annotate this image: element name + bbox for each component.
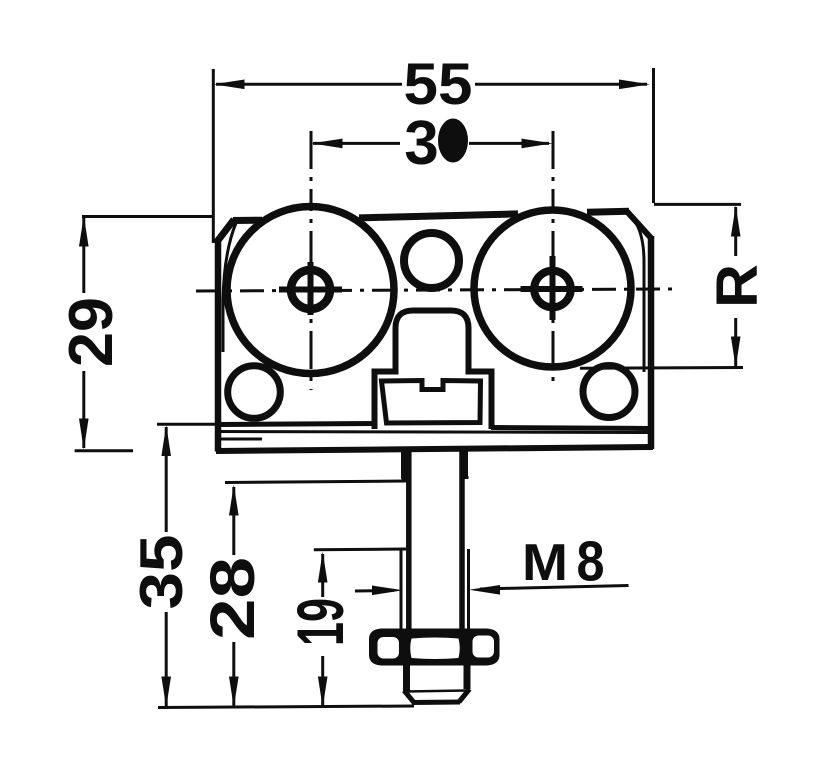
bolt collar left	[401, 447, 407, 479]
svg-text:55: 55	[404, 52, 473, 117]
bolt shank right	[459, 447, 465, 629]
dim M8 arrow left tail	[355, 589, 394, 593]
dim 30 blob zero	[438, 119, 468, 163]
thread line left	[400, 549, 403, 629]
dim 19 arrow down	[318, 677, 328, 708]
bolt shank left	[406, 447, 412, 629]
dim 35 line lower	[165, 612, 168, 706]
dim M8 arrow right head	[469, 585, 500, 595]
dim M8 leader line	[480, 586, 629, 590]
dim 29 line upper	[82, 218, 85, 293]
roller left outer circle	[227, 207, 394, 374]
body left edge	[215, 241, 222, 452]
nut left facet	[378, 637, 400, 659]
dim R line upper	[734, 207, 737, 256]
dim 19 ext top	[314, 548, 406, 552]
nut body	[369, 629, 500, 666]
nut right facet	[473, 636, 495, 658]
nut middle facet	[410, 638, 460, 660]
roller right outer circle	[474, 210, 631, 367]
body top-right chamfer	[627, 212, 651, 239]
svg-text:M: M	[522, 534, 568, 592]
svg-text:29: 29	[57, 297, 126, 367]
roller right hub cross vertical	[550, 256, 556, 320]
bottom-right hole circle	[583, 366, 635, 418]
svg-text:8: 8	[577, 530, 605, 594]
dim 35 arrow up	[161, 425, 171, 456]
dim 28 line lower	[232, 642, 235, 706]
svg-text:35: 35	[128, 535, 195, 610]
base plate bottom line	[216, 447, 653, 451]
bolt tip runout line	[406, 691, 466, 692]
bolt tip left	[403, 665, 410, 691]
bolt collar right	[463, 447, 468, 477]
base plate left lip line	[220, 438, 262, 441]
dim R ext bottom	[580, 366, 743, 370]
dim 19 arrow up	[318, 552, 328, 583]
dim 28 arrow down	[229, 677, 239, 708]
dim 28 arrow up	[229, 485, 239, 516]
roller right vertical centerline	[552, 131, 555, 388]
dim 55 ext line right	[652, 68, 655, 203]
dim 55 arrow left	[214, 80, 245, 90]
dim 30 arrow right	[522, 139, 553, 149]
dim 29 ext bottom	[75, 449, 133, 452]
dim 55 line right	[475, 83, 647, 86]
roller left hub cross horizontal	[279, 287, 342, 293]
latch tab inner plate with notch	[382, 381, 481, 424]
dim 55 ext line left	[212, 69, 215, 243]
bolt tip chamfer left	[404, 691, 414, 703]
body bottom edge right segment	[491, 428, 649, 429]
bolt collar step right	[462, 476, 469, 479]
base plate top line	[217, 432, 653, 433]
dim 28 line upper	[232, 487, 235, 555]
dim 19 line upper	[321, 554, 324, 597]
dim R ext top	[654, 203, 741, 206]
dim 29 arrow up	[79, 216, 89, 247]
dim 55 line left	[216, 83, 402, 86]
dim 29 line lower	[82, 371, 85, 448]
roller left hub ring	[291, 270, 330, 309]
roller left hub cross vertical	[308, 262, 314, 315]
dim 55 arrow right	[619, 80, 650, 90]
roller right hub cross horizontal	[521, 286, 583, 292]
dim 29 arrow down	[79, 419, 89, 450]
dim 19 line lower	[321, 656, 324, 706]
body right edge	[648, 236, 655, 449]
svg-text:28: 28	[198, 557, 268, 640]
dim 35 line upper	[165, 427, 168, 532]
dim R arrow up	[731, 206, 741, 237]
dim 30 line left	[313, 142, 400, 145]
roller right hub ring	[534, 271, 571, 308]
bottom extension line	[158, 706, 414, 708]
dim 30 arrow left	[312, 139, 343, 149]
roller left vertical centerline	[310, 131, 313, 390]
body inner thin line right	[630, 215, 644, 372]
body bottom edge left segment	[220, 424, 375, 425]
svg-text:3: 3	[404, 109, 438, 178]
dim R line lower	[734, 318, 737, 366]
bolt tip right	[464, 665, 471, 689]
thread line right	[467, 549, 470, 629]
dim 35 arrow down	[161, 677, 171, 708]
bolt collar step left	[402, 478, 411, 481]
latch tab outline	[375, 311, 492, 430]
dim 28 ext top	[225, 481, 406, 483]
svg-text:R: R	[705, 264, 770, 308]
dim 29 ext top	[82, 215, 214, 218]
bolt tip bottom face	[412, 700, 460, 706]
bottom-left hole circle	[228, 366, 281, 419]
body top-left chamfer	[216, 220, 234, 244]
dim 30 line right	[469, 142, 549, 145]
dim M8 arrow left head	[372, 586, 403, 596]
body inner thin line left	[223, 223, 236, 352]
dim R arrow down	[731, 337, 741, 368]
middle hole circle	[404, 233, 459, 288]
bolt tip chamfer right	[459, 689, 470, 702]
svg-text:19: 19	[283, 598, 357, 646]
dim 35 ext top	[157, 423, 217, 426]
body top edge	[233, 211, 629, 220]
horizontal centerline	[196, 289, 672, 291]
